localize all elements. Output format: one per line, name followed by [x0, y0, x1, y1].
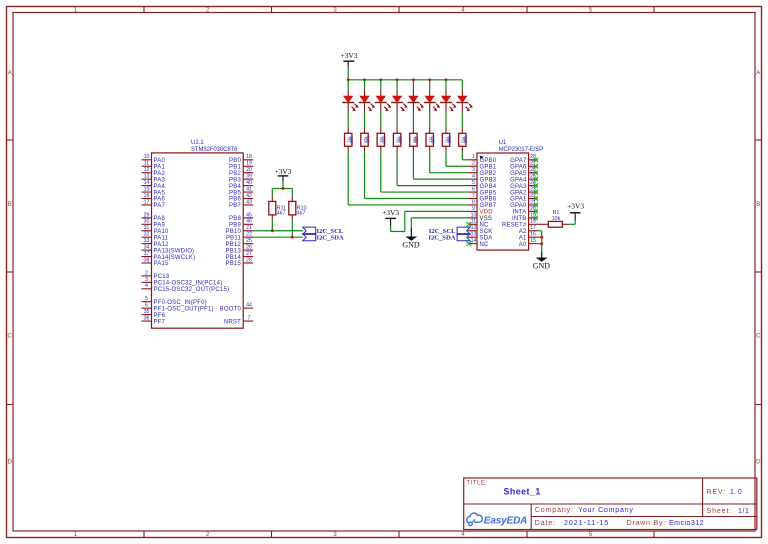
- junction rail col3: [379, 78, 382, 81]
- svg-text:C: C: [756, 334, 761, 340]
- svg-text:18: 18: [246, 154, 252, 160]
- U2 pin 36 PF7: [142, 315, 166, 325]
- U2 pin 31 PA10: [142, 225, 169, 235]
- svg-text:43: 43: [246, 199, 252, 205]
- svg-text:GPA1: GPA1: [510, 197, 527, 203]
- svg-text:11: 11: [471, 219, 476, 225]
- svg-text:A: A: [8, 71, 12, 77]
- svg-text:PA9: PA9: [154, 223, 166, 229]
- wire R10 to I2C_SDA: [291, 220, 293, 238]
- svg-text:1: 1: [472, 154, 475, 160]
- U1 pin 15 A0: [519, 238, 538, 248]
- power flag +3V3 (RESET pullup): [567, 202, 584, 220]
- U1 pin 19 INTB: [512, 212, 538, 222]
- svg-text:4: 4: [145, 283, 148, 289]
- svg-text:2021-11-15: 2021-11-15: [564, 520, 609, 527]
- U2 pin 44 BOOT0: [220, 303, 254, 313]
- svg-text:40: 40: [246, 180, 252, 186]
- U2 pin 26 PB13: [226, 245, 254, 255]
- ground GND (address pins): [533, 252, 551, 271]
- ground GND (U1 VSS): [402, 228, 420, 250]
- svg-text:30: 30: [144, 219, 150, 225]
- junction rail col6: [428, 78, 431, 81]
- svg-text:35: 35: [144, 309, 150, 315]
- svg-text:GPA4: GPA4: [510, 177, 527, 183]
- svg-text:VDD: VDD: [480, 210, 494, 216]
- wire LED6 to resistor: [429, 113, 431, 128]
- svg-text:GPA6: GPA6: [510, 164, 527, 170]
- svg-text:31: 31: [144, 225, 150, 231]
- svg-text:41: 41: [246, 186, 252, 192]
- wire LED5 to resistor: [412, 113, 414, 128]
- svg-text:INTB: INTB: [512, 216, 526, 222]
- svg-text:INTA: INTA: [512, 210, 526, 216]
- svg-text:PA12: PA12: [154, 242, 169, 248]
- svg-text:GPA2: GPA2: [510, 190, 527, 196]
- svg-text:PB10: PB10: [226, 229, 242, 235]
- date and author: [535, 520, 704, 527]
- U1 pin 9 VDD: [468, 206, 493, 216]
- svg-text:3: 3: [145, 277, 148, 283]
- svg-text:360: 360: [365, 136, 370, 144]
- svg-text:PB11: PB11: [226, 235, 241, 241]
- wire resistor R2 to GPB7: [348, 152, 468, 205]
- U1 pin 11 NC: [467, 219, 489, 229]
- svg-text:10k: 10k: [552, 216, 561, 222]
- svg-text:GPB4: GPB4: [480, 184, 497, 190]
- svg-text:STM32F030C8T6: STM32F030C8T6: [191, 147, 238, 153]
- svg-text:13: 13: [144, 174, 150, 180]
- LED D8: [456, 89, 473, 113]
- U1 pin 21 GPA0: [510, 199, 538, 209]
- wire rail to LED6: [429, 80, 431, 89]
- svg-text:Sheet_1: Sheet_1: [504, 486, 541, 496]
- U2 pin 45 PB8: [229, 212, 253, 222]
- svg-text:PA1: PA1: [154, 164, 166, 170]
- wire A2/A1/A0 to GND: [538, 231, 542, 252]
- U2 pin 5 PF0-OSC_IN(PF0): [142, 296, 207, 306]
- U2 pin 32 PA11: [142, 232, 169, 242]
- svg-text:38: 38: [144, 257, 150, 263]
- svg-text:PB4: PB4: [229, 184, 241, 190]
- resistor R6 360: [410, 128, 420, 152]
- U2 pin 27 PB14: [226, 251, 254, 261]
- svg-text:34: 34: [144, 245, 150, 251]
- svg-text:PA5: PA5: [154, 190, 166, 196]
- U2 pin 39 PB3: [229, 174, 253, 184]
- label U2.1: [191, 140, 204, 146]
- svg-text:4: 4: [472, 174, 475, 180]
- junction A1: [540, 236, 543, 239]
- svg-text:14: 14: [144, 180, 150, 186]
- junction rail col2: [363, 78, 366, 81]
- svg-text:PA2: PA2: [154, 171, 166, 177]
- wire LED7 to resistor: [445, 113, 447, 128]
- U1 pin 24 GPA3: [510, 180, 538, 190]
- U2 pin 42 PB6: [229, 193, 253, 203]
- svg-text:21: 21: [246, 225, 252, 231]
- svg-text:PB7: PB7: [229, 203, 241, 209]
- svg-text:PA3: PA3: [154, 177, 166, 183]
- svg-text:MCP23017-E/SP: MCP23017-E/SP: [499, 147, 543, 153]
- svg-text:NC: NC: [480, 223, 490, 229]
- svg-text:45: 45: [246, 212, 252, 218]
- svg-text:12: 12: [144, 167, 150, 173]
- wire LED2 to resistor: [364, 113, 366, 128]
- U1 pin 6 GPB5: [468, 186, 497, 196]
- sheet number: [707, 508, 750, 515]
- power flag +3V3 (pullups): [275, 167, 292, 182]
- wire resistor R5 to GPB4: [397, 152, 468, 186]
- U2 pin 38 PA15: [142, 257, 169, 267]
- U2 pin 4 PC15-OSC32_OUT(PC15): [142, 283, 230, 293]
- svg-text:PB0: PB0: [229, 158, 241, 164]
- net port I2C_SCL (MCU side): [303, 227, 344, 235]
- svg-text:A0: A0: [519, 242, 527, 248]
- svg-text:GPB7: GPB7: [480, 203, 497, 209]
- svg-text:37: 37: [144, 251, 150, 257]
- svg-text:PB13: PB13: [226, 248, 242, 254]
- svg-text:GPB3: GPB3: [480, 177, 497, 183]
- U2 pin 43 PB7: [229, 199, 253, 209]
- U1 pin 8 GPB7: [468, 199, 497, 209]
- LED D7: [440, 89, 457, 113]
- svg-text:360: 360: [398, 136, 403, 144]
- resistor R10 4k7: [289, 197, 307, 220]
- resistor R5 360: [393, 128, 403, 152]
- LED D6: [424, 89, 441, 113]
- LED D5: [407, 89, 424, 113]
- wire resistor R3 to GPB6: [365, 152, 469, 199]
- wire rail to LED4: [396, 80, 398, 89]
- wire rail to LED2: [364, 80, 366, 89]
- U2 pin 41 PB5: [229, 186, 253, 196]
- U1 pin 16 A1: [519, 232, 538, 242]
- svg-text:Your Company: Your Company: [578, 507, 634, 514]
- wire LED8 to resistor: [461, 113, 463, 128]
- svg-text:PB14: PB14: [226, 255, 242, 261]
- U1 pin 7 GPB6: [468, 193, 497, 203]
- U2 pin 12 PA2: [142, 167, 166, 177]
- svg-text:I2C_SDA: I2C_SDA: [428, 235, 455, 242]
- svg-text:SDA: SDA: [480, 235, 493, 241]
- svg-text:PC14-OSC32_IN(PC14): PC14-OSC32_IN(PC14): [154, 281, 223, 287]
- svg-text:SCK: SCK: [480, 229, 493, 235]
- U1 pin 2 GPB1: [468, 161, 497, 171]
- U2 pin 40 PB4: [229, 180, 253, 190]
- wire R11 to I2C_SCL: [271, 220, 273, 231]
- svg-text:Date:: Date:: [535, 520, 556, 527]
- svg-text:4k7: 4k7: [277, 210, 286, 216]
- U2 pin 37 PA14(SWCLK): [142, 251, 196, 261]
- svg-text:PB15: PB15: [226, 261, 242, 267]
- wire VSS to GND: [411, 218, 468, 228]
- junction rail col5: [412, 78, 415, 81]
- resistor R9 360: [459, 128, 469, 152]
- label U1: [499, 140, 507, 146]
- svg-text:GND: GND: [402, 241, 420, 250]
- svg-text:2: 2: [472, 161, 475, 167]
- U1 pin 25 GPA4: [510, 174, 538, 184]
- svg-text:D: D: [8, 460, 13, 466]
- svg-text:PA14(SWCLK): PA14(SWCLK): [154, 255, 196, 261]
- svg-text:RESET#: RESET#: [502, 223, 527, 229]
- svg-text:B: B: [8, 202, 12, 208]
- label STM32F030C8T6: [191, 147, 238, 153]
- junction rail col7: [445, 78, 448, 81]
- U1 pin 5 GPB4: [468, 180, 497, 190]
- U2 pin 10 PA0: [142, 154, 166, 164]
- junction rail col1: [347, 78, 350, 81]
- svg-text:REV:: REV:: [707, 489, 726, 496]
- svg-text:PA13(SWDIO): PA13(SWDIO): [154, 248, 195, 254]
- wire +3V3 to VDD: [391, 211, 468, 231]
- LED D1: [342, 89, 359, 113]
- U2 pin 21 PB10: [226, 225, 254, 235]
- U2 pin 18 PB0: [229, 154, 253, 164]
- svg-text:C: C: [8, 334, 13, 340]
- svg-text:U2.1: U2.1: [191, 140, 204, 146]
- wire LED1 to resistor: [347, 113, 349, 128]
- svg-text:4k7: 4k7: [297, 210, 306, 216]
- svg-text:I2C_SDA: I2C_SDA: [317, 235, 344, 242]
- svg-text:3: 3: [472, 167, 475, 173]
- U2 pin 15 PA5: [142, 186, 166, 196]
- svg-text:PB3: PB3: [229, 177, 241, 183]
- svg-text:5: 5: [145, 296, 148, 302]
- svg-text:19: 19: [246, 161, 252, 167]
- U2 pin 22 PB11: [226, 232, 253, 242]
- junction SCL/R11: [271, 229, 274, 232]
- svg-text:U1: U1: [499, 140, 507, 146]
- junction +3V3/pullups: [282, 187, 285, 190]
- U1 pin 3 GPB2: [468, 167, 497, 177]
- svg-text:GPB0: GPB0: [480, 158, 497, 164]
- U2 pin 11 PA1: [142, 161, 166, 171]
- LED D2: [359, 89, 376, 113]
- U1 pin 4 GPB3: [468, 174, 497, 184]
- U1 pin 27 GPA6: [510, 161, 538, 171]
- svg-text:46: 46: [246, 219, 252, 225]
- U1 pin 10 VSS: [468, 212, 492, 222]
- U1 pin 18 RESET#: [502, 219, 538, 229]
- svg-text:GPA5: GPA5: [510, 171, 527, 177]
- svg-text:A: A: [756, 71, 760, 77]
- svg-text:PB12: PB12: [226, 242, 242, 248]
- U1 pin 22 GPA1: [510, 193, 538, 203]
- svg-text:+3V3: +3V3: [382, 208, 399, 217]
- wire rail to LED5: [412, 80, 414, 89]
- U1 pin 26 GPA5: [510, 167, 538, 177]
- svg-text:PB9: PB9: [229, 223, 241, 229]
- U1 pin 23 GPA2: [510, 186, 538, 196]
- U2 pin 33 PA12: [142, 238, 169, 248]
- U2 pin 17 PA7: [142, 199, 166, 209]
- wire rail to LED3: [380, 80, 382, 89]
- svg-text:GPB1: GPB1: [480, 164, 497, 170]
- label MCP23017-E/SP: [499, 147, 543, 153]
- U2 pin 3 PC14-OSC32_IN(PC14): [142, 277, 223, 287]
- svg-text:10: 10: [471, 212, 477, 218]
- svg-text:PC15-OSC32_OUT(PC15): PC15-OSC32_OUT(PC15): [154, 287, 230, 293]
- svg-text:15: 15: [144, 186, 150, 192]
- svg-text:15: 15: [530, 238, 536, 244]
- svg-text:PA8: PA8: [154, 216, 166, 222]
- U1 pin 17 A2: [519, 225, 538, 235]
- svg-text:GPA7: GPA7: [510, 158, 527, 164]
- svg-text:PA0: PA0: [154, 158, 166, 164]
- svg-text:17: 17: [530, 225, 536, 231]
- svg-text:D: D: [756, 460, 761, 466]
- svg-text:16: 16: [530, 232, 536, 238]
- wire I2C_SDA from PB11: [253, 236, 303, 238]
- wire +3V3 to pullup tops: [272, 182, 292, 197]
- svg-text:BOOT0: BOOT0: [220, 306, 242, 312]
- svg-text:PB8: PB8: [229, 216, 241, 222]
- svg-text:+3V3: +3V3: [567, 202, 584, 211]
- U1 pin 28 GPA7: [510, 154, 538, 164]
- svg-text:39: 39: [246, 174, 252, 180]
- svg-text:NRST: NRST: [224, 319, 241, 325]
- svg-text:GPA3: GPA3: [510, 184, 527, 190]
- U2 pin 29 PA8: [142, 212, 166, 222]
- svg-text:GPB6: GPB6: [480, 197, 497, 203]
- svg-text:27: 27: [246, 251, 252, 257]
- U2 pin 2 PC13: [142, 270, 170, 280]
- EasyEDA logo: [467, 513, 528, 526]
- net port I2C_SDA (MCU side): [303, 234, 344, 242]
- U1 pin 14 NC: [467, 238, 489, 248]
- svg-text:12: 12: [471, 225, 477, 231]
- junction A0: [540, 242, 543, 245]
- resistor R7 360: [426, 128, 436, 152]
- svg-text:PF6: PF6: [154, 313, 166, 319]
- svg-text:32: 32: [144, 232, 150, 238]
- svg-text:11: 11: [144, 161, 149, 167]
- title block: [464, 478, 757, 530]
- svg-text:17: 17: [144, 199, 150, 205]
- svg-text:28: 28: [246, 257, 252, 263]
- svg-text:360: 360: [431, 136, 436, 144]
- U2 pin 46 PB9: [229, 219, 253, 229]
- svg-text:PA11: PA11: [154, 235, 169, 241]
- svg-text:25: 25: [246, 238, 252, 244]
- U2 pin 14 PA4: [142, 180, 166, 190]
- svg-text:360: 360: [447, 136, 452, 144]
- svg-text:PF1-OSC_OUT(PF1): PF1-OSC_OUT(PF1): [154, 306, 214, 312]
- svg-text:6: 6: [472, 186, 475, 192]
- svg-text:PC13: PC13: [154, 274, 170, 280]
- wire LED supply rail: [348, 79, 462, 81]
- U1 pin 12 SCK: [468, 225, 492, 235]
- svg-text:13: 13: [471, 232, 477, 238]
- svg-text:29: 29: [144, 212, 150, 218]
- svg-text:A1: A1: [519, 235, 527, 241]
- svg-text:PB1: PB1: [229, 164, 241, 170]
- wire LED4 to resistor: [396, 113, 398, 128]
- svg-text:Emcio312: Emcio312: [669, 520, 704, 527]
- resistor R8 360: [442, 128, 452, 152]
- wire rail to LED7: [445, 80, 447, 89]
- svg-text:TITLE:: TITLE:: [467, 481, 488, 487]
- U1 pin 20 INTA: [512, 206, 538, 216]
- svg-text:9: 9: [472, 206, 475, 212]
- junction rail col4: [396, 78, 399, 81]
- svg-text:Sheet:: Sheet:: [707, 508, 733, 515]
- wire LED3 to resistor: [380, 113, 382, 128]
- resistor R4 360: [377, 128, 387, 152]
- svg-text:PF0-OSC_IN(PF0): PF0-OSC_IN(PF0): [154, 300, 207, 306]
- wire resistor R4 to GPB5: [381, 152, 468, 192]
- svg-text:10: 10: [144, 154, 150, 160]
- svg-text:1.0: 1.0: [730, 489, 743, 496]
- U2 pin 6 PF1-OSC_OUT(PF1): [142, 303, 214, 313]
- U2 pin 20 PB2: [229, 167, 253, 177]
- wire resistor R6 to GPB3: [413, 152, 468, 179]
- svg-text:PB5: PB5: [229, 190, 241, 196]
- wire +3V3 to rail: [347, 68, 349, 80]
- resistor R1 10k: [538, 210, 563, 227]
- U2 pin 34 PA13(SWDIO): [142, 245, 195, 255]
- svg-text:NC: NC: [480, 242, 490, 248]
- net port I2C_SDA (U1 side): [428, 234, 470, 242]
- svg-text:+3V3: +3V3: [275, 167, 292, 176]
- svg-text:GND: GND: [533, 262, 551, 271]
- svg-text:8: 8: [472, 199, 475, 205]
- svg-text:R1: R1: [553, 210, 560, 216]
- svg-text:360: 360: [382, 136, 387, 144]
- svg-text:33: 33: [144, 238, 150, 244]
- svg-text:+3V3: +3V3: [341, 51, 358, 60]
- U2 pin 35 PF6: [142, 309, 166, 319]
- LED D4: [391, 89, 408, 113]
- svg-text:14: 14: [471, 238, 477, 244]
- svg-text:44: 44: [246, 303, 252, 309]
- svg-text:PA6: PA6: [154, 197, 166, 203]
- svg-text:6: 6: [145, 303, 148, 309]
- U2 pin 28 PB15: [226, 257, 254, 267]
- svg-text:22: 22: [246, 232, 252, 238]
- svg-text:7: 7: [248, 315, 251, 321]
- wire rail to LED1: [347, 80, 349, 89]
- U2 pin 19 PB1: [229, 161, 253, 171]
- svg-text:A2: A2: [519, 229, 527, 235]
- svg-text:VSS: VSS: [480, 216, 493, 222]
- svg-text:360: 360: [349, 136, 354, 144]
- svg-text:PA4: PA4: [154, 184, 166, 190]
- svg-text:GPB5: GPB5: [480, 190, 497, 196]
- junction SDA/R10: [291, 236, 294, 239]
- wire resistor R8 to GPB1: [446, 152, 468, 166]
- wire I2C_SCL from PB10: [253, 230, 303, 232]
- power flag +3V3 (LED rail): [341, 51, 358, 68]
- wire resistor R7 to GPB2: [430, 152, 468, 173]
- svg-text:PB2: PB2: [229, 171, 241, 177]
- U2 pin 30 PA9: [142, 219, 166, 229]
- svg-text:360: 360: [463, 136, 468, 144]
- resistor R3 360: [361, 128, 371, 152]
- svg-text:GPA0: GPA0: [510, 203, 527, 209]
- svg-text:PA10: PA10: [154, 229, 169, 235]
- wire resistor R9 to GPB0: [462, 152, 468, 160]
- U1 pin 1 GPB0: [468, 154, 497, 164]
- svg-text:Drawn By:: Drawn By:: [627, 520, 667, 527]
- resistor R11 4k7: [269, 197, 286, 220]
- svg-text:2: 2: [145, 270, 148, 276]
- svg-text:PB6: PB6: [229, 197, 241, 203]
- svg-text:360: 360: [414, 136, 419, 144]
- svg-text:5: 5: [472, 180, 475, 186]
